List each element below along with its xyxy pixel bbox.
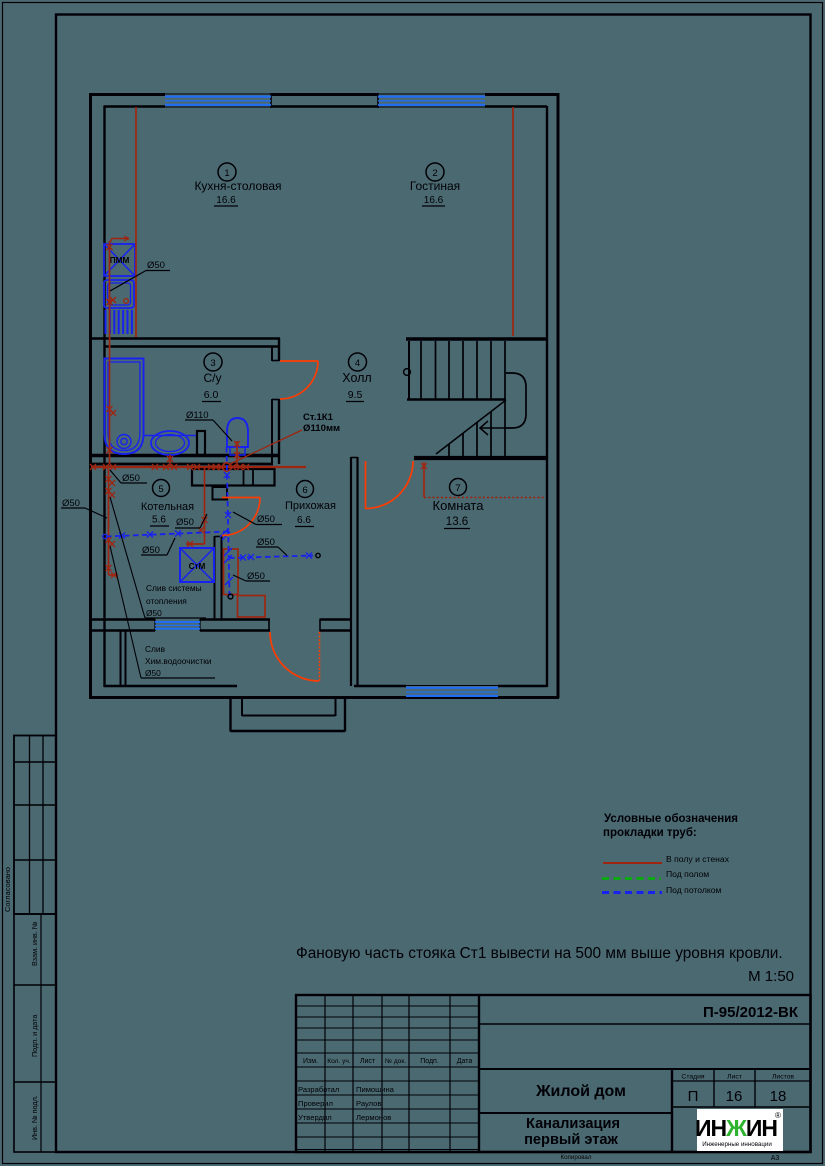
svg-text:2: 2 (432, 168, 437, 179)
pipe room7 (421, 462, 545, 498)
svg-text:16: 16 (726, 1088, 743, 1105)
duct box below bathroom (192, 469, 275, 500)
logo INJIN (695, 1109, 783, 1151)
wall exterior right (547, 93, 558, 698)
stack label (303, 412, 340, 434)
pipe kitchen vertical (107, 236, 130, 464)
svg-text:Листов: Листов (772, 1074, 794, 1081)
pipe to washing machine (186, 468, 208, 547)
svg-text:Согласовано: Согласовано (3, 867, 12, 912)
label d50 boiler top (110, 470, 147, 484)
svg-text:Ст.1К1: Ст.1К1 (303, 412, 334, 423)
svg-text:№ док.: № док. (385, 1058, 406, 1065)
label Inv no podl (30, 1095, 39, 1140)
wall boiler/hall partition (215, 536, 222, 619)
svg-text:Слив: Слив (145, 644, 166, 654)
bathtub (105, 359, 144, 455)
red shaft rect B (238, 596, 266, 618)
kitchen sink (104, 280, 134, 308)
room 5 label (141, 480, 194, 527)
label Podp i data (30, 1015, 39, 1057)
approval table (left margin) (14, 736, 56, 915)
washbasin (151, 431, 189, 455)
svg-text:П: П (688, 1088, 699, 1105)
svg-text:16.6: 16.6 (216, 195, 236, 206)
svg-text:Ø50: Ø50 (146, 608, 162, 618)
title block outer (296, 995, 811, 1152)
svg-text:Прихожая: Прихожая (285, 500, 336, 512)
pipe toilet drop (234, 441, 240, 466)
svg-text:Подп. и дата: Подп. и дата (30, 1015, 39, 1057)
svg-text:П-95/2012-ВК: П-95/2012-ВК (703, 1004, 799, 1021)
red shaft rect A (224, 549, 239, 595)
svg-text:С/у: С/у (204, 371, 222, 385)
label Vzam inv (30, 921, 39, 966)
wall exterior top outer (89, 93, 559, 96)
svg-text:Копировал: Копировал (560, 1154, 591, 1161)
svg-text:М 1:50: М 1:50 (748, 968, 794, 985)
label d50 B3 (256, 537, 287, 556)
label d50 B1 (141, 538, 175, 556)
svg-text:Под потолком: Под потолком (666, 885, 721, 895)
svg-text:первый этаж: первый этаж (524, 1132, 618, 1148)
wall exterior left (91, 93, 105, 698)
label d50 outside left (61, 498, 107, 518)
svg-text:Проверил: Проверил (298, 1099, 333, 1108)
svg-text:®: ® (775, 1111, 781, 1120)
sheet name (524, 1116, 620, 1148)
svg-text:ПММ: ПММ (110, 256, 130, 265)
svg-text:Стадия: Стадия (681, 1074, 704, 1081)
label d50 B2 low (233, 571, 270, 582)
svg-text:4: 4 (355, 358, 360, 369)
svg-text:Ø50: Ø50 (145, 668, 161, 678)
svg-text:А3: А3 (771, 1155, 780, 1162)
svg-text:Хим.водоочистки: Хим.водоочистки (145, 656, 212, 666)
svg-text:В полу и стенах: В полу и стенах (666, 854, 730, 864)
wall mid horizontal (kitchen/bath) (89, 339, 280, 347)
svg-text:Пимошина: Пимошина (356, 1085, 395, 1094)
washing machine StM (180, 548, 214, 582)
svg-text:Дата: Дата (457, 1058, 473, 1065)
wall exterior bottom inner (104, 686, 547, 699)
door entrance (270, 632, 320, 681)
label heating drain (110, 497, 206, 618)
wall below stairs (414, 456, 547, 460)
wall entry right piece (320, 620, 352, 632)
wall hall/room7 vertical (351, 457, 358, 686)
stairs newel circle (404, 369, 411, 376)
window boiler room (155, 622, 200, 629)
porch (231, 699, 346, 732)
window bottom (room7) (406, 688, 498, 696)
dishwasher PMM (104, 244, 135, 276)
svg-text:6.6: 6.6 (297, 515, 311, 526)
svg-text:Ø50: Ø50 (142, 545, 160, 556)
pipe riser kitchen wall (135, 107, 137, 337)
svg-text:Кухня-столовая: Кухня-столовая (194, 179, 281, 193)
wall bathroom right stub upper (272, 338, 279, 361)
svg-text:5.6: 5.6 (152, 515, 166, 526)
svg-text:Холл: Холл (342, 371, 371, 385)
revision table columns (296, 995, 479, 1152)
pipe riser living room (512, 107, 514, 336)
svg-text:Инженерные инновации: Инженерные инновации (702, 1141, 772, 1148)
svg-text:9.5: 9.5 (348, 389, 363, 401)
svg-text:Котельная: Котельная (141, 501, 194, 513)
pipe boiler room left (106, 470, 119, 578)
svg-text:Ø50: Ø50 (62, 498, 80, 509)
stack leader (230, 430, 302, 464)
terrace pier (121, 631, 126, 686)
blue pipe B1 (103, 529, 230, 540)
pipe main sewer line (90, 464, 306, 470)
label d50 kitchen (110, 260, 170, 291)
title block main dividers (479, 995, 811, 1152)
room 1 label (194, 163, 281, 206)
svg-text:Изм.: Изм. (303, 1058, 318, 1065)
svg-text:ИНЖИН: ИНЖИН (695, 1115, 777, 1141)
label d50 door area (233, 512, 282, 525)
window top-left (165, 97, 271, 105)
svg-text:6.0: 6.0 (204, 389, 219, 401)
left margin strip cells (14, 914, 56, 1152)
wall bathroom bottom (89, 456, 280, 465)
door room7 (366, 461, 414, 509)
signature rows (298, 1085, 395, 1122)
room 7 label (433, 479, 485, 529)
label d50 near 5.6 (175, 514, 207, 528)
door bathroom (280, 361, 318, 399)
stairs handrail loop (506, 373, 526, 428)
svg-text:Ø50: Ø50 (257, 537, 275, 548)
stairs upper flight (407, 341, 506, 400)
svg-text:Условные обозначения: Условные обозначения (604, 813, 738, 825)
svg-text:Ø50: Ø50 (247, 571, 265, 582)
svg-text:Кол. уч.: Кол. уч. (327, 1058, 351, 1065)
room 2 label (410, 163, 460, 206)
stairs direction arrow (436, 400, 506, 454)
svg-text:Утвердил: Утвердил (298, 1113, 332, 1122)
wall bathroom right lower (272, 399, 279, 464)
svg-text:Канализация: Канализация (526, 1116, 620, 1132)
svg-text:16.6: 16.6 (424, 195, 444, 206)
label chem water drain (110, 546, 215, 678)
revision table headers (303, 1058, 472, 1065)
stairs lower flight (449, 401, 505, 456)
basin partition (197, 431, 205, 455)
svg-text:Взам. инв. №: Взам. инв. № (30, 921, 39, 966)
room 4 label (342, 353, 371, 402)
kitchen rack (106, 310, 132, 334)
toilet (227, 418, 248, 455)
legend title (603, 813, 738, 839)
svg-text:Подп.: Подп. (420, 1058, 439, 1065)
svg-text:отопления: отопления (146, 596, 187, 606)
svg-text:Инв. № подл.: Инв. № подл. (30, 1095, 39, 1140)
svg-text:Жилой дом: Жилой дом (535, 1083, 626, 1100)
svg-text:Разработал: Разработал (298, 1085, 339, 1094)
svg-text:7: 7 (455, 483, 460, 494)
blue pipe B3 (229, 553, 320, 561)
room 6 label (285, 481, 336, 527)
svg-text:3: 3 (210, 358, 215, 369)
svg-text:Слив системы: Слив системы (146, 583, 202, 593)
legend line in floor (603, 862, 662, 864)
svg-text:Ø50: Ø50 (176, 517, 194, 528)
svg-text:Под полом: Под полом (666, 869, 709, 879)
svg-text:прокладки труб:: прокладки труб: (603, 827, 697, 839)
svg-text:Ø110мм: Ø110мм (303, 423, 340, 434)
svg-text:18: 18 (770, 1088, 787, 1105)
legend line ceiling (602, 891, 662, 894)
room 3 label (202, 353, 222, 402)
svg-text:Раулов: Раулов (356, 1099, 381, 1108)
wall exterior top inner (104, 93, 548, 108)
wall boiler bottom with window (89, 619, 270, 631)
svg-text:СтМ: СтМ (189, 562, 206, 571)
stack St1K1 circle (222, 463, 230, 471)
stairs top line (406, 337, 547, 340)
label Soglasovano (3, 867, 12, 912)
svg-text:1: 1 (224, 168, 229, 179)
svg-text:5: 5 (158, 484, 163, 495)
label d110 bathroom (185, 410, 232, 441)
legend line under floor (602, 877, 661, 880)
window top-right (378, 97, 485, 105)
stage table (672, 1069, 811, 1107)
svg-text:Лист: Лист (360, 1058, 376, 1065)
svg-text:Ø50: Ø50 (147, 260, 165, 271)
pipe basin drop (167, 455, 173, 466)
svg-text:13.6: 13.6 (446, 516, 468, 528)
door boiler room (222, 498, 260, 536)
wall exterior bottom outer (89, 696, 559, 699)
svg-text:Лермонов: Лермонов (356, 1113, 391, 1122)
blue pipe B2 (224, 447, 233, 599)
counter line (144, 435, 198, 437)
svg-text:Гостиная: Гостиная (410, 179, 460, 193)
svg-text:Комната: Комната (433, 498, 485, 513)
svg-text:6: 6 (302, 485, 307, 496)
svg-text:Ø110: Ø110 (186, 410, 209, 421)
svg-text:Лист: Лист (727, 1074, 742, 1081)
svg-text:Фановую часть стояка Ст1 вывес: Фановую часть стояка Ст1 вывести на 500 … (296, 945, 783, 962)
svg-text:Ø50: Ø50 (257, 514, 275, 525)
svg-text:Ø50: Ø50 (122, 473, 140, 484)
